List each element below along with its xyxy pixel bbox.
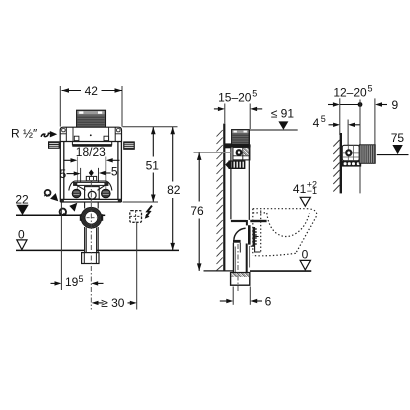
drain socket (82, 253, 99, 264)
flush plate (ribbed) (359, 145, 375, 164)
socket (side) (231, 273, 250, 286)
svg-text:9: 9 (392, 98, 399, 112)
svg-text:41: 41 (293, 182, 307, 196)
svg-text:R ½″: R ½″ (11, 126, 38, 140)
svg-text:51: 51 (146, 158, 160, 172)
floor line left segment (204, 270, 234, 272)
svg-text:5: 5 (252, 88, 257, 98)
svg-text:19: 19 (65, 275, 79, 289)
dimension 15-20^5 (214, 88, 262, 129)
lightning bolt (145, 206, 152, 219)
mounting rail with slots (342, 161, 361, 167)
supply squiggle icon (41, 133, 51, 137)
outlet connector (248, 220, 267, 252)
left knob (48, 142, 59, 149)
dimension >=30 (92, 296, 137, 310)
svg-text:5: 5 (321, 114, 326, 124)
svg-text:15–20: 15–20 (218, 90, 252, 104)
dimension 19^5 (51, 203, 104, 291)
dimension 12-20^5 (328, 84, 399, 112)
supply pipe ribbed (225, 160, 245, 169)
dimension 4^5 (313, 114, 360, 145)
dimension 82 (158, 127, 181, 251)
wall (right detail) (333, 133, 341, 193)
tank sides (231, 130, 249, 220)
drain circle (80, 203, 103, 228)
arrow to frame (50, 131, 57, 137)
drain pipe (85, 227, 99, 253)
diagonal struts (75, 184, 86, 190)
marker 41 +2/-1 (293, 179, 317, 206)
frame rail left (60, 142, 64, 200)
svg-text:5: 5 (59, 167, 66, 181)
svg-text:12–20: 12–20 (333, 86, 367, 100)
marker <=91 (250, 107, 298, 130)
dimension 42 (62, 84, 123, 98)
svg-text:≥ 30: ≥ 30 (101, 296, 125, 310)
svg-text:≤ 91: ≤ 91 (271, 107, 295, 121)
pipe (side) (233, 240, 250, 273)
svg-text:22: 22 (15, 192, 29, 206)
svg-text:5: 5 (368, 84, 373, 94)
tool icon (left bolt) (44, 190, 58, 201)
right fixing bolt (102, 189, 111, 198)
tank lid band (60, 127, 121, 141)
svg-text:−1: −1 (307, 186, 317, 196)
svg-text:76: 76 (190, 204, 204, 218)
extension line (76 top) (194, 151, 231, 153)
frame bottom bar (60, 199, 121, 202)
flush bend (231, 220, 247, 240)
svg-text:5: 5 (79, 274, 84, 284)
dimension 6 (220, 287, 272, 309)
dimension 76 (190, 152, 204, 271)
valve box (side) (233, 147, 250, 160)
svg-text:0: 0 (302, 248, 309, 262)
svg-text:4: 4 (313, 116, 320, 130)
wall hatching (217, 130, 223, 271)
tank bottom edge (71, 142, 73, 146)
dimension 51 (123, 127, 160, 202)
flange bar (228, 144, 251, 147)
centerline (90, 182, 92, 310)
left fixing bolt (72, 189, 81, 198)
wall face (217, 124, 225, 271)
dimension 18/23 (64, 145, 120, 197)
rear bracket knob (225, 143, 232, 148)
marker 75 (377, 131, 409, 155)
dimension 42 extension lines (60, 86, 122, 127)
marker 0 (side) (250, 248, 311, 272)
extension lines (340, 98, 375, 193)
WC pan dashed (253, 209, 317, 256)
flush valve assembly (69, 176, 112, 199)
svg-text:75: 75 (391, 131, 405, 145)
right knob (124, 142, 135, 150)
line from electrical box (136, 223, 138, 310)
frame feet (60, 199, 64, 202)
protection box (side) (232, 130, 250, 145)
dimensions 5 / 5 (59, 165, 117, 182)
svg-text:0: 0 (18, 227, 25, 241)
svg-text:82: 82 (167, 183, 181, 197)
centerline (side pipe) (237, 244, 239, 292)
svg-text:42: 42 (85, 84, 99, 98)
protection box (front) (77, 110, 106, 127)
level 22 (15, 192, 105, 215)
svg-text:5: 5 (111, 165, 118, 179)
frame rail right (118, 142, 122, 200)
svg-text:6: 6 (265, 294, 272, 308)
label R 1/2" (11, 126, 57, 140)
protection box (detail) (342, 145, 359, 161)
level 0 (16, 227, 179, 250)
electrical box (130, 211, 142, 223)
svg-text:18/23: 18/23 (76, 145, 106, 159)
tool icon (drain) (59, 203, 78, 216)
